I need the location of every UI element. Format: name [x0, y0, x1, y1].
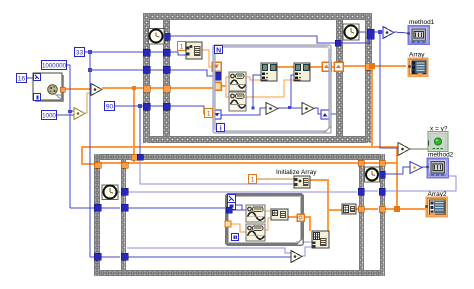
constant 16: [17, 74, 27, 83]
tunnel orange loop1 outer-left y=88: [143, 85, 150, 92]
tunnel blue For-left y=114 shift reg: [213, 110, 221, 119]
svg-text:1000000: 1000000: [42, 63, 67, 70]
wire blue: For interior to triangles: [221, 108, 266, 115]
waveform VI 3: [246, 205, 265, 222]
inner while loop 4 right border: [359, 160, 364, 270]
wire orange: queue icon down to For tunnel: [201, 50, 213, 67]
constant 1000000: [42, 61, 67, 70]
wire blue: vertical feed VI2: [291, 75, 294, 108]
tunnel blue For-left y=76: [213, 72, 221, 80]
tunnel orange loop4 right y=209: [358, 206, 364, 212]
wire orange: left drop x=82 into bottom loop: [82, 146, 96, 164]
frame resize corner: [296, 238, 303, 245]
wire orange: inside bottom loop y=164 across: [101, 162, 380, 164]
wire orange: VI2 to right tunnels: [310, 66, 325, 68]
while loop 1 top border: [143, 13, 372, 20]
icon3 build array small: [342, 204, 356, 214]
tunnel orange loop2 left y=88: [163, 85, 170, 92]
wire orange thin: 1 const to queue icon: [184, 45, 186, 47]
terminal Array: [408, 58, 428, 76]
tunnel orange indexing loop2-right: [334, 62, 343, 71]
wire blue: 1000000 down x=70 long: [66, 65, 70, 208]
wire orange: x=328 down to icon2: [327, 210, 329, 231]
triangle 3 bottom: [291, 251, 302, 263]
wire blue: vertical feed VI1: [253, 75, 261, 108]
wire lavender: triangle3 out to icon2: [302, 247, 312, 256]
frame blue input terminal: [226, 207, 232, 213]
tunnel orange loop1 right y=66 Array: [365, 63, 372, 70]
wire lavender: x=140 to InitArray y=184: [140, 161, 294, 184]
wire orange: waveform2 to VI2: [246, 80, 294, 97]
junction dot method1: [378, 30, 382, 34]
while loop 3 right border: [380, 154, 385, 276]
terminal method1: [407, 26, 429, 45]
terminal Array2: [425, 197, 447, 217]
triangle to x=y: [398, 143, 410, 156]
wire blue: 90 const y=106: [114, 105, 163, 107]
svg-text:1: 1: [207, 111, 211, 118]
waveform VI 4: [246, 224, 265, 241]
wire blue: frame box2 to waveform3: [234, 205, 242, 210]
wire orange: waveform4 up to build icon: [265, 218, 271, 230]
wire green thin: triangle to x=y?: [410, 148, 428, 150]
inner while loop 2 left border: [163, 20, 170, 136]
tunnel blue loop2 left y=35 clock wire: [163, 33, 170, 40]
while loop 3 left border: [94, 154, 100, 276]
inner gray frame: [227, 195, 303, 245]
while loop 1 right border: [365, 13, 372, 143]
waveform VI 2: [229, 92, 246, 111]
wire orange: branch down at x=134 to bottom loop tunnel: [133, 88, 135, 155]
build array icon in frame: [271, 209, 288, 220]
wire blue: x=90 long vertical: [89, 52, 91, 257]
inner while loop 4 left border: [121, 160, 126, 270]
junction dot orange x=134: [132, 86, 136, 90]
while loop 3 top border: [94, 154, 385, 160]
wire blue: y=70 into loop: [90, 69, 163, 71]
junction dot t1-t2: [288, 106, 291, 109]
wire blue: clock1 out across, step down: [164, 33, 372, 43]
wire orange: frame tunnel to icon2: [303, 217, 310, 231]
svg-text:1: 1: [251, 177, 255, 184]
wire tan: divide out up to multiply: [85, 93, 91, 113]
subVI random array generator: [33, 73, 65, 102]
frame right orange ring tunnel: [297, 214, 304, 221]
frame terminal 2: [228, 203, 236, 210]
tunnel blue loop3 right y=191: [379, 188, 385, 195]
for loop border: [213, 45, 331, 133]
tunnel blue loop4 right y=191: [358, 188, 364, 195]
wire orange: right vertical x=397 Array2 feed: [397, 146, 426, 209]
for loop count terminal N: [215, 46, 223, 55]
wire orange: array chain in For loop: [221, 85, 226, 87]
multiply triangle: [91, 84, 102, 96]
tunnel blue loop3 right y=174 clock4: [379, 171, 385, 178]
wire orange: InitArray out right, down x=328: [310, 180, 342, 210]
tunnel blue loop1 right y=32 method1: [367, 29, 374, 39]
svg-text:90: 90: [106, 104, 114, 111]
tunnel blue loop3 outer-left y=257: [94, 253, 101, 260]
triangle to method1: [383, 27, 394, 39]
wire orange: y=163.5 to x=397 junction: [385, 162, 397, 164]
terminal x=y?: [428, 132, 448, 152]
tunnel blue loop2 right y=43: [335, 40, 341, 46]
wire orange: outer tunnel to Array terminal: [372, 65, 406, 67]
svg-text:33: 33: [76, 50, 84, 57]
tunnel orange loop3 top-border x=134: [131, 154, 137, 160]
frame terminal N: [228, 195, 236, 203]
tunnel blue loop4 left y=257: [121, 253, 128, 260]
frame orange left tunnel: [225, 221, 231, 227]
constant 1 for shift register: [205, 109, 213, 118]
for loop resize corner: [324, 126, 331, 133]
wire blue: tunnel to method1: [372, 31, 383, 33]
wire orange: VI output to multiply: [65, 88, 91, 90]
wire blue: y=208 into frame: [70, 207, 94, 209]
constant 1 init array: [249, 175, 257, 184]
wire orange: x=134 below tunnel join y=164: [133, 160, 135, 164]
clock3 wait bottom-left: [102, 185, 118, 200]
initialize array icon: [294, 176, 310, 188]
wire orange: build icon out to frame tunnel: [288, 216, 297, 218]
svg-text:1000: 1000: [42, 113, 56, 120]
tunnel blue For-right y=114: [321, 110, 329, 119]
tunnel orange hollow For-left y=86: [213, 82, 221, 90]
constant 1 queue: [178, 42, 186, 51]
junction orange x=397 Array2: [394, 206, 400, 212]
tunnel orange loop3 right y=163: [379, 160, 385, 166]
tunnel blue loop2 left y=52: [163, 49, 170, 56]
tunnel blue loop1 outer-left y=52: [143, 49, 150, 56]
wire orange: icon3 out to tunnels and Array2 junction: [356, 208, 378, 210]
wire orange: frame hollow tunnel to waveform4: [231, 224, 246, 232]
svg-text:16: 16: [18, 76, 26, 83]
wire blue: branch down x=140: [139, 106, 141, 155]
wire blue: clock2 out: [359, 31, 365, 33]
wire blue: 33 across y=52: [84, 51, 163, 53]
tunnel blue loop3 outer-left y=208: [94, 204, 101, 211]
tunnel blue loop4 left y=192: [121, 188, 128, 195]
wire lavender: frame area to icon2: [296, 241, 312, 243]
wire orange: VI1 to VI2: [276, 66, 294, 68]
wire orange: multiply out across to For loop: [102, 87, 213, 89]
junction dots left column: [88, 50, 92, 54]
tunnel blue loop4 left y=208: [121, 204, 128, 211]
clock2 wait top-right: [343, 24, 359, 40]
tunnel blue loop2 left y=70: [163, 66, 170, 73]
tunnel blue loop1 outer-left y=106: [143, 103, 150, 110]
tunnel orange indexing For-left: [212, 62, 221, 71]
tunnel orange indexing For-right: [322, 62, 331, 71]
inner while loop 2 right border: [336, 20, 343, 136]
clock4 wait bottom-right: [365, 167, 380, 182]
wire blue: frame internal: [232, 209, 246, 211]
wire blue: y=257 across bottom: [90, 256, 94, 258]
wire blue: clock4 to method2: [381, 173, 385, 175]
array VI 2 replace subset: [294, 63, 310, 81]
junction orange Array branch: [369, 63, 375, 69]
while loop 3 bottom border: [94, 270, 385, 276]
tunnel blue loop3 top-border x=140: [137, 154, 143, 160]
array VI 1 replace subset: [261, 63, 277, 81]
iteration terminal i: [217, 124, 225, 133]
clock1 wait top-left: [149, 29, 165, 45]
svg-text:i: i: [220, 125, 222, 132]
waveform VI 1: [229, 72, 246, 91]
svg-text:N: N: [216, 47, 221, 54]
wire blue: x=380 down to x=y? triangle: [380, 32, 398, 148]
while loop 1 bottom border: [143, 136, 372, 143]
tunnel blue loop2 left y=106: [163, 103, 170, 110]
increment triangle 2: [302, 103, 314, 115]
svg-text:Initialize Array: Initialize Array: [276, 169, 317, 176]
tunnel orange loop3 right y=209: [379, 206, 385, 212]
wire blue: branch to divide: [70, 110, 74, 112]
svg-text:1: 1: [180, 44, 184, 51]
wire lavender: clock3 out y=192 across and wrap to method2: [118, 191, 120, 193]
tunnel blue loop1 outer-left y=70: [143, 66, 150, 73]
wire orange: waveform1 to VI1: [246, 77, 261, 80]
triangle to method2: [410, 162, 422, 174]
tunnel orange loop3 outer-left y=165: [94, 162, 101, 168]
wire blue: 16 to VI N: [26, 77, 34, 79]
divide triangle: [74, 108, 85, 120]
while loop 1 left border: [143, 13, 150, 143]
tunnel orange loop4 left y=165: [121, 162, 128, 168]
icon2 index array: [312, 231, 329, 248]
wire orange: long horizontal y=147: [82, 146, 397, 148]
constant 90: [105, 102, 115, 111]
wire orange: Initialize Array const 1: [256, 178, 294, 180]
constant 33: [75, 48, 85, 57]
constant 1000: [42, 111, 57, 120]
wire lavender: y=248 to triangle3: [127, 248, 291, 253]
wire blue: 1000 to divide: [56, 114, 74, 116]
queue obtain icon: [186, 42, 202, 59]
increment triangle 1: [266, 103, 278, 115]
tunnel orange loop4 right y=163: [358, 160, 364, 166]
frame blue 1 box: [232, 234, 239, 241]
wire orange: Array tunnel drop x=372: [371, 70, 373, 147]
terminal method2: [426, 158, 448, 178]
wire orange: waveform3 to build icon: [265, 210, 271, 212]
